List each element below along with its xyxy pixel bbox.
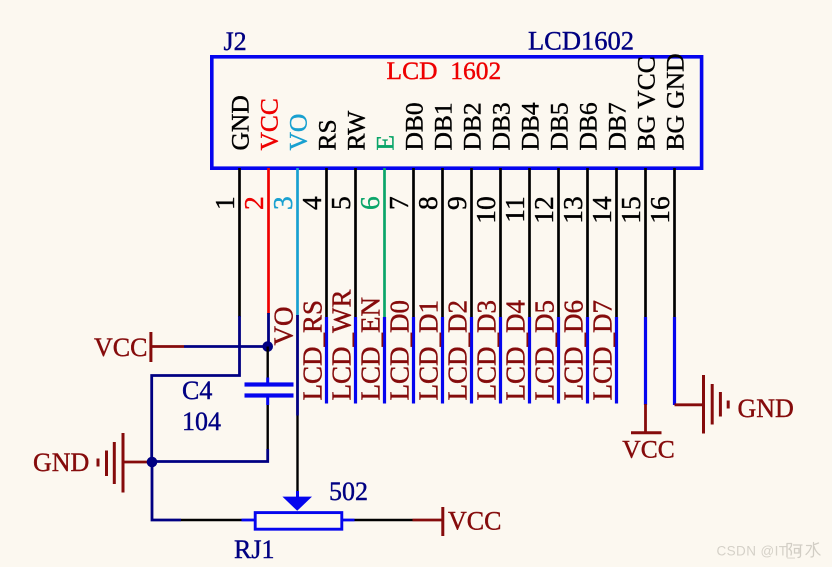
svg-text:GND: GND [738,394,794,423]
power port VCC right: lead [413,519,443,522]
pin 1 wire (upper segment) [238,168,241,317]
ground symbol right: lead [675,403,704,406]
svg-text:LCD_EN: LCD_EN [356,297,386,401]
svg-text:LCD_D2: LCD_D2 [443,300,473,401]
ground symbol left: bar 2 [113,442,116,484]
svg-text:DB4: DB4 [515,102,544,150]
ground symbol left: text GND [33,448,89,477]
svg-text:DB3: DB3 [486,102,515,150]
pin 10 number label [470,196,501,224]
svg-text:RW: RW [341,110,370,151]
pin 6 wire (upper segment) [383,168,386,318]
svg-text:LCD_D1: LCD_D1 [414,300,444,401]
pin 1 number label [209,196,240,210]
pin 6 number label [354,196,385,210]
pin name DB5 (pin 12) [544,102,573,150]
power port VCC pin15: text [622,434,674,463]
svg-text:LCD_D0: LCD_D0 [385,300,415,401]
svg-text:LCD_D6: LCD_D6 [559,300,589,401]
wire net stub pin 9 [470,317,473,404]
pin 14 number label [586,196,617,224]
svg-text:1: 1 [209,196,240,210]
svg-text:BG VCC: BG VCC [631,56,660,150]
pin name E (pin 6) [370,135,399,151]
svg-text:DB5: DB5 [544,102,573,150]
junction node ground rail [147,457,158,468]
wire net stub pin 10 [499,317,502,404]
pin 7 wire (upper segment) [412,168,415,318]
pin 5 number label [325,196,356,210]
pin 15 wire (upper segment) [644,168,647,318]
value 502 [329,477,368,506]
ground symbol right: bar 1 [702,375,705,434]
pin 10 wire (upper segment) [499,168,502,318]
wire RJ1 right (black segment) [355,519,413,521]
net label LCD_D2 [443,300,473,401]
wire net stub pin 12 [557,317,560,404]
svg-text:104: 104 [182,407,221,436]
pin 8 wire (upper segment) [441,168,444,318]
svg-text:13: 13 [557,196,588,224]
pin 4 wire (upper segment) [325,168,328,318]
wire to RJ1 left (blue stub) [242,519,256,522]
net label LCD_RS [298,300,328,401]
power port VCC right: bar [441,507,444,536]
svg-text:15: 15 [615,196,646,224]
wire pin3 VO down (black segment) [296,416,298,492]
svg-text:DB0: DB0 [399,102,428,150]
wire net stub pin 11 [528,317,531,404]
ground symbol left: bar 4 [97,459,100,467]
pin 8 number label [412,196,443,210]
svg-text:LCD_D4: LCD_D4 [501,300,531,401]
svg-text:11: 11 [499,196,530,222]
wire pin1 to ground (vertical) [152,316,240,462]
pin 5 wire (upper segment) [354,168,357,318]
net label LCD_D5 [530,300,560,401]
svg-text:5: 5 [325,196,356,210]
svg-text:9: 9 [441,196,472,210]
svg-text:14: 14 [586,196,617,224]
svg-text:DB1: DB1 [428,102,457,150]
label C4 [182,376,212,405]
pin name RW (pin 5) [341,110,370,151]
pin name DB6 (pin 13) [573,102,602,150]
net label LCD_WR [327,290,357,401]
ground symbol right: bar 4 [727,401,730,409]
wire RJ1 right (blue stub) [343,519,355,522]
svg-text:10: 10 [470,196,501,224]
ground symbol right: text GND [738,394,794,423]
svg-text:RJ1: RJ1 [234,535,274,564]
svg-text:J2: J2 [224,27,247,56]
svg-text:LCD 1602: LCD 1602 [387,56,502,85]
pin name VO (pin 3) [283,114,312,151]
pin name BG GND (pin 16) [660,53,689,150]
pin 11 number label [499,196,530,222]
pin 7 number label [383,196,414,210]
pin 2 wire (upper segment) [267,168,270,314]
designator J2 [224,27,247,56]
svg-text:7: 7 [383,196,414,210]
pin name DB1 (pin 8) [428,102,457,150]
pin 3 wire (upper segment) [296,168,299,316]
svg-text:GND: GND [33,448,89,477]
svg-text:12: 12 [528,196,559,224]
pin 15 number label [615,196,646,224]
wire net stub pin 7 [412,317,415,404]
wire VCC rail to junction [184,345,268,348]
svg-text:6: 6 [354,196,385,210]
net label LCD_D4 [501,300,531,401]
capacitor C4 top plate [245,382,294,386]
ground symbol left: lead [123,461,152,464]
pin 13 wire (upper segment) [586,168,589,318]
pin name DB2 (pin 9) [457,102,486,150]
pin 13 number label [557,196,588,224]
wire net stub pin 14 [615,317,618,404]
pin name DB7 (pin 14) [602,102,631,150]
junction node VO/VCC rail [262,341,273,352]
net label LCD_D0 [385,300,415,401]
wire pin3 VO wiper stub (blue) [296,491,299,498]
value 104 [182,407,221,436]
svg-text:CSDN @IT_: CSDN @IT_ [717,544,796,559]
watermark hanzi A-shui [787,543,820,558]
svg-text:2: 2 [238,196,269,210]
svg-text:16: 16 [644,196,675,224]
svg-text:C4: C4 [182,376,212,405]
net label LCD_EN [356,297,386,401]
connector J2 body [212,57,702,168]
svg-text:VCC: VCC [254,98,283,150]
designator RJ1 [234,535,274,564]
pin 9 number label [441,196,472,210]
title LCD 1602 [387,56,502,85]
pin 16 wire (upper segment) [673,168,676,318]
power port VCC left: lead [151,345,184,348]
wire net stub pin 16 [673,317,676,405]
wire C4 bottom lead (blue) [266,397,269,406]
pin 11 wire (upper segment) [528,168,531,318]
power port VCC pin15: lead [644,404,647,432]
pin 3 number label [267,196,298,210]
power port VCC left: text [94,333,147,362]
ground symbol right: bar 3 [719,392,722,417]
pin name GND (pin 1) [225,95,254,150]
watermark CSDN @IT_ [717,544,796,559]
svg-text:VO: VO [283,114,312,151]
svg-text:LCD_RS: LCD_RS [298,300,328,401]
svg-text:DB2: DB2 [457,102,486,150]
svg-text:LCD_D3: LCD_D3 [472,300,502,401]
pin 12 number label [528,196,559,224]
pin name BG VCC (pin 15) [631,56,660,150]
svg-text:VO: VO [269,307,299,346]
pin name DB3 (pin 10) [486,102,515,150]
svg-text:GND: GND [225,95,254,150]
wire junction to C4 top (black) [267,347,269,378]
svg-text:502: 502 [329,477,368,506]
wire net stub pin 8 [441,317,444,404]
svg-text:LCD1602: LCD1602 [528,26,634,56]
wire pin3 VO down (navy segment) [296,315,299,416]
svg-text:DB7: DB7 [602,102,631,150]
svg-text:E: E [370,135,399,151]
pin 2 number label [238,196,269,210]
power port VCC left: bar [149,332,152,362]
svg-text:VCC: VCC [448,507,501,536]
pin 16 number label [644,196,675,224]
net label LCD_D1 [414,300,444,401]
svg-text:RS: RS [312,119,341,150]
potentiometer RJ1 wiper arrow [282,497,312,511]
pin name DB4 (pin 11) [515,102,544,150]
pin name RS (pin 4) [312,119,341,150]
pin name DB0 (pin 7) [399,102,428,150]
net label VO [269,307,299,346]
pin 4 number label [296,196,327,210]
wire net stub pin 6 [383,317,386,404]
svg-text:VCC: VCC [94,333,147,362]
svg-text:3: 3 [267,196,298,210]
power port VCC right: text [448,507,501,536]
ground symbol right: bar 2 [711,384,714,425]
net label LCD_D3 [472,300,502,401]
pin 14 wire (upper segment) [615,168,618,318]
capacitor C4 bottom plate [245,393,294,397]
pin 9 wire (upper segment) [470,168,473,318]
svg-text:DB6: DB6 [573,102,602,150]
net label LCD_D6 [559,300,589,401]
wire net stub pin 4 [325,317,328,404]
net label LCD_D7 [588,300,618,401]
wire net stub pin 13 [586,317,589,404]
svg-text:VCC: VCC [622,434,674,463]
ground symbol left: bar 3 [105,451,108,477]
power port VCC pin15: bar [631,431,662,434]
wire pin2 to VCC rail [267,313,270,347]
wire net stub pin 5 [354,317,357,404]
svg-text:BG GND: BG GND [660,53,689,150]
wire C4 bottom (black segment) [267,405,269,449]
wire C4 bottom to ground rail [152,449,268,462]
wire net stub pin 15 [644,317,647,405]
svg-text:LCD_D5: LCD_D5 [530,300,560,401]
ground symbol left: bar 1 [122,433,125,493]
svg-text:8: 8 [412,196,443,210]
pin 12 wire (upper segment) [557,168,560,318]
svg-text:4: 4 [296,196,327,210]
potentiometer RJ1 body [255,513,342,530]
comment LCD1602 [528,26,634,56]
pin name VCC (pin 2) [254,98,283,150]
svg-text:LCD_WR: LCD_WR [327,290,357,401]
wire ground junction down to RJ1 [152,462,181,520]
wire C4 top lead (blue) [266,378,269,384]
wire to RJ1 left (black segment) [181,519,242,521]
svg-text:LCD_D7: LCD_D7 [588,300,618,401]
